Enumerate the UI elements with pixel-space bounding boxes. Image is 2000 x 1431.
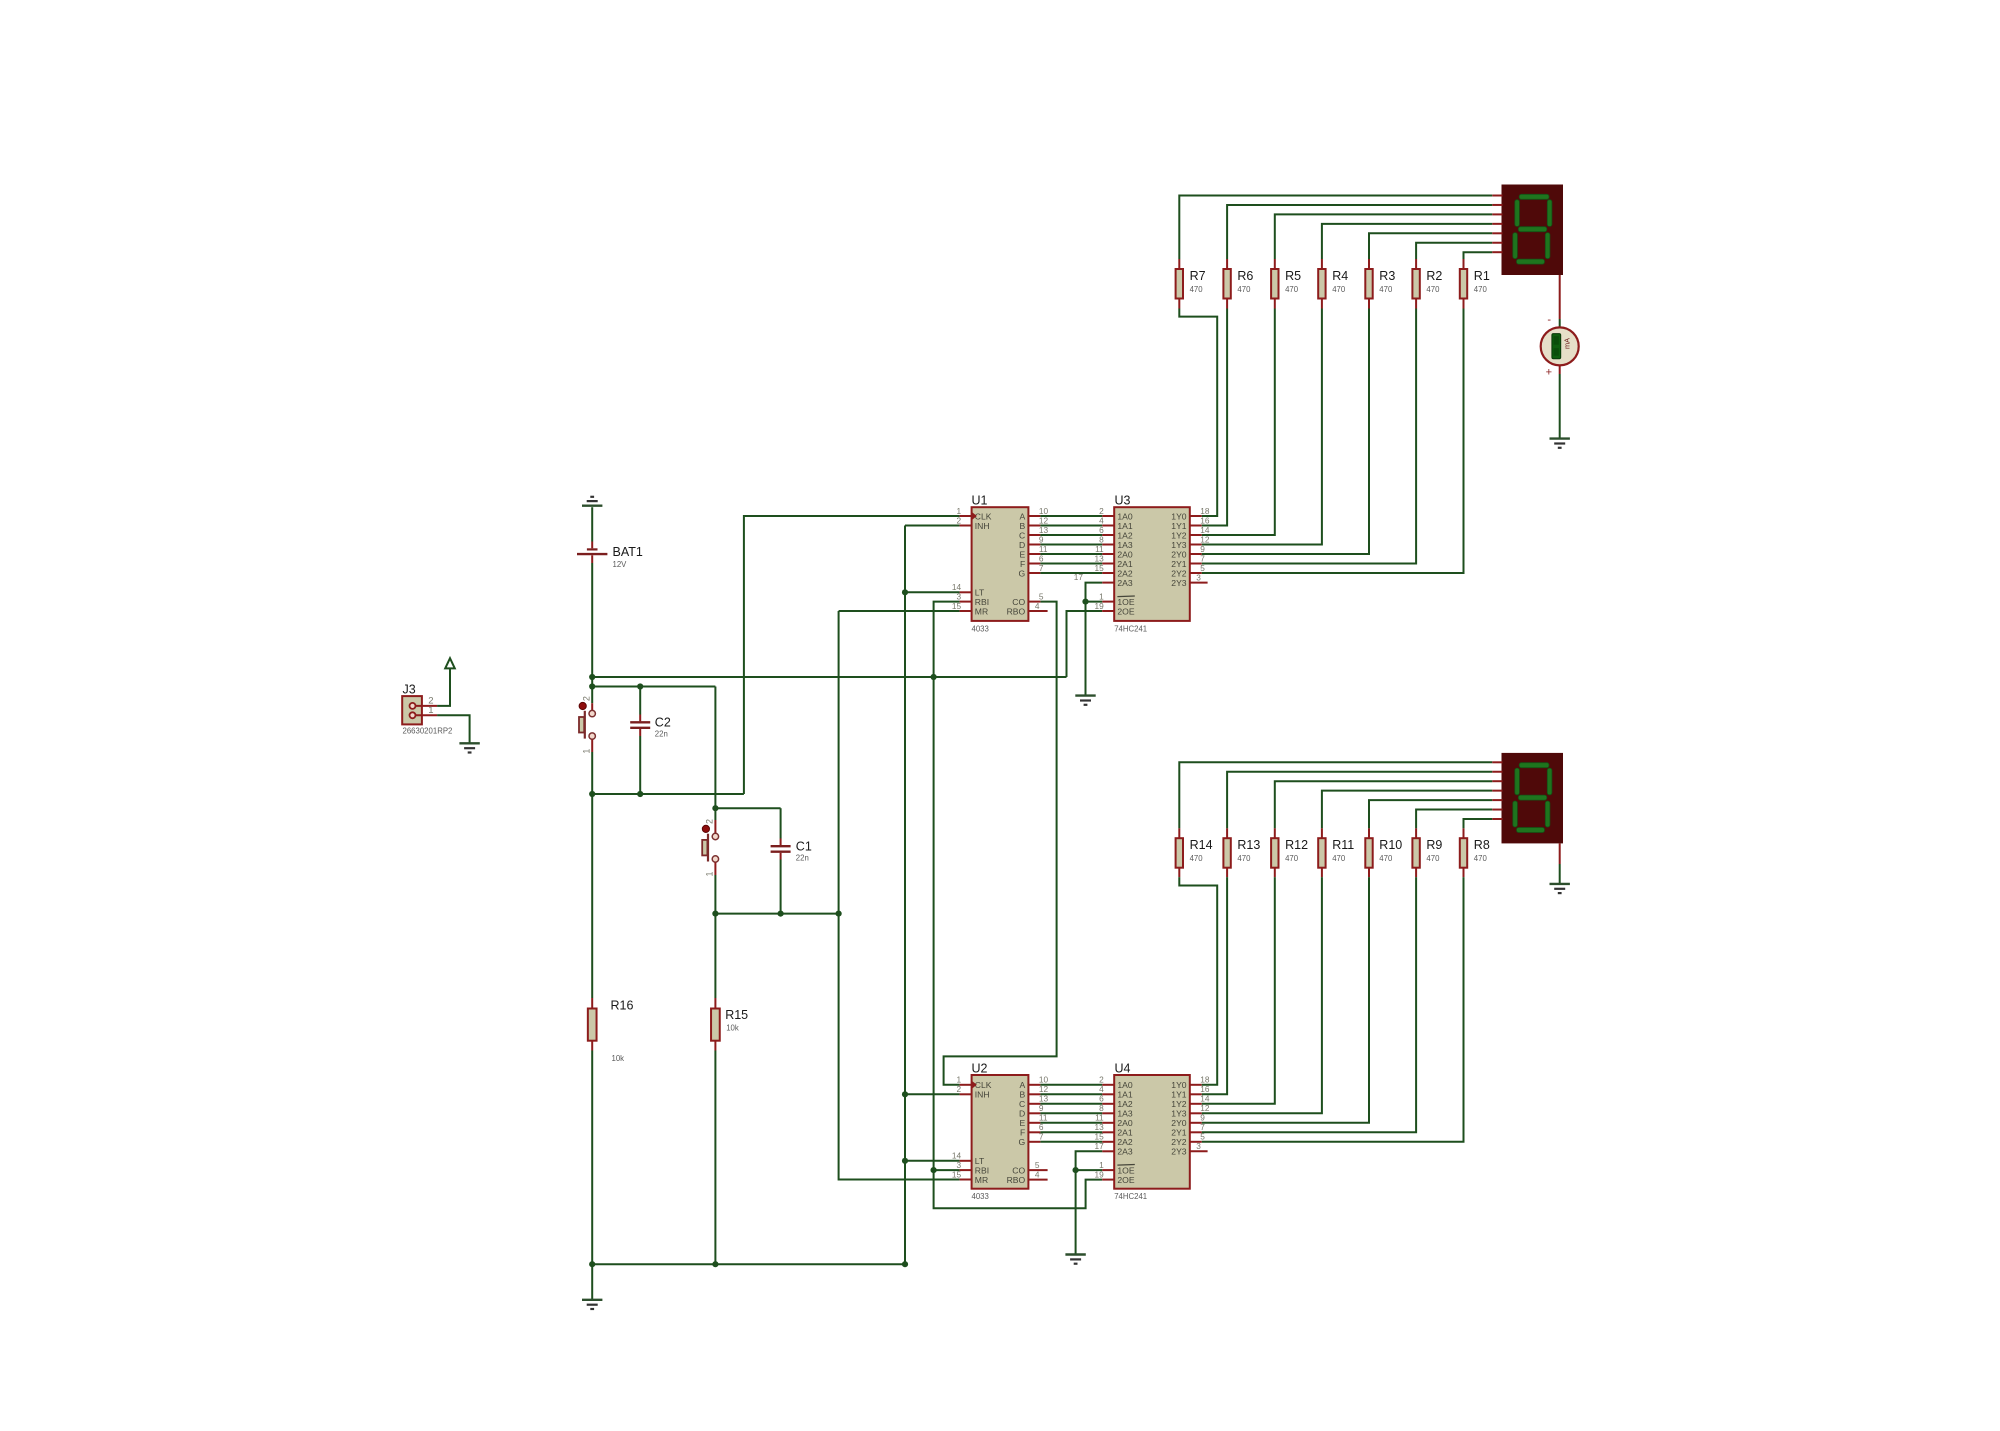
svg-text:1A0: 1A0 — [1117, 1080, 1133, 1090]
resistor R12 — [1271, 838, 1308, 868]
push button (upper) — [579, 696, 595, 754]
pin 7 2Y1 — [1171, 553, 1205, 569]
svg-text:E: E — [1019, 549, 1025, 559]
wire R12 to display row — [1275, 781, 1493, 828]
pin 4 1A1 — [1099, 515, 1133, 531]
resistor R2 — [1412, 269, 1442, 299]
svg-text:2Y1: 2Y1 — [1171, 1128, 1187, 1138]
wire R13 to display row — [1227, 772, 1492, 828]
wire R11 top stub — [1321, 828, 1323, 838]
svg-text:26630201RP2: 26630201RP2 — [403, 727, 453, 736]
svg-text:G: G — [1019, 1137, 1026, 1147]
svg-text:1: 1 — [956, 506, 961, 516]
svg-text:2A2: 2A2 — [1117, 568, 1133, 578]
resistor R7 — [1176, 269, 1206, 299]
pin 17 2A3 — [1074, 572, 1133, 588]
wire U1 E to U3 — [1040, 553, 1102, 555]
wire ammeter to ground — [1559, 374, 1561, 439]
svg-text:1Y1: 1Y1 — [1171, 1090, 1187, 1100]
junction node 913 left — [712, 911, 718, 917]
svg-text:22n: 22n — [655, 729, 668, 738]
pin 7 G — [1019, 563, 1044, 579]
svg-text:R9: R9 — [1426, 838, 1442, 852]
svg-text:2: 2 — [705, 819, 715, 824]
pin 6 F — [1020, 553, 1044, 569]
wire R11 to display row — [1322, 791, 1492, 829]
pin 17 2A3 — [1094, 1141, 1132, 1157]
resistor R16 — [588, 999, 634, 1063]
svg-text:2A1: 2A1 — [1117, 559, 1133, 569]
wire R15 top lead — [714, 914, 716, 998]
wire R1 to U3 output — [1202, 309, 1464, 574]
svg-text:CO: CO — [1012, 1165, 1025, 1175]
pin 3 2Y3 — [1171, 572, 1207, 588]
wire R11 to U4 output — [1202, 877, 1322, 1113]
pin 11 E — [1019, 544, 1047, 560]
svg-text:1A0: 1A0 — [1117, 511, 1133, 521]
svg-text:1Y2: 1Y2 — [1171, 1099, 1187, 1109]
connector J3 — [402, 683, 452, 736]
pin 18 1Y0 — [1171, 506, 1210, 522]
pin 12 1Y3 — [1171, 534, 1210, 550]
wire R7 bottom stub — [1178, 299, 1180, 309]
svg-text:R4: R4 — [1332, 269, 1348, 283]
svg-text:INH: INH — [975, 1090, 990, 1100]
svg-text:2Y3: 2Y3 — [1171, 578, 1187, 588]
wire R8 to U4 output — [1202, 877, 1464, 1142]
wire R6 to display row — [1227, 205, 1492, 259]
svg-text:470: 470 — [1285, 285, 1299, 294]
wire MR1 horizontal — [839, 610, 960, 612]
svg-text:J3: J3 — [403, 683, 416, 697]
svg-text:2OE: 2OE — [1117, 606, 1134, 616]
wire U4 1OE branch — [1076, 1169, 1103, 1171]
wire LT1 branch — [905, 591, 960, 593]
svg-text:470: 470 — [1426, 854, 1440, 863]
wire R14 top stub — [1178, 828, 1180, 838]
svg-text:2A2: 2A2 — [1117, 1137, 1133, 1147]
capacitor C1 — [771, 839, 812, 862]
wire ground rail horizontal — [592, 1263, 905, 1265]
pin 13 C — [1019, 1094, 1049, 1110]
svg-text:2Y0: 2Y0 — [1171, 1118, 1187, 1128]
svg-text:D: D — [1019, 540, 1025, 550]
pin 12 B — [1019, 515, 1048, 531]
wire R15 bottom to ground rail — [714, 1051, 716, 1265]
svg-text:4: 4 — [1035, 1169, 1040, 1179]
svg-text:-: - — [1547, 314, 1551, 326]
wire battery to node 677 — [591, 563, 593, 677]
wire R16 bottom to ground rail — [591, 1051, 593, 1265]
IC body U1 — [972, 494, 1029, 634]
pin 1 1OE — [1099, 591, 1135, 607]
wire R10 bottom stub — [1368, 867, 1370, 877]
pin 11 2A0 — [1095, 544, 1133, 560]
svg-text:2A0: 2A0 — [1117, 1118, 1133, 1128]
svg-text:R1: R1 — [1474, 269, 1490, 283]
resistor R13 — [1223, 838, 1260, 868]
pin 10 A — [1019, 506, 1048, 522]
wire U4 2A3 to ground drop — [1076, 1151, 1103, 1254]
wire INH/LT net vertical — [905, 525, 960, 527]
svg-text:mA: mA — [1563, 338, 1572, 349]
svg-text:U1: U1 — [972, 494, 988, 508]
svg-text:1: 1 — [428, 705, 433, 716]
svg-text:1: 1 — [956, 1075, 961, 1085]
wire R16 top lead — [591, 794, 593, 998]
wire node 808 horizontal — [715, 807, 780, 809]
pin 19 2OE — [1094, 1169, 1134, 1185]
IC body U3 — [1114, 494, 1190, 634]
ground below display2 — [1550, 884, 1570, 893]
resistor R5 — [1271, 269, 1301, 299]
wire R6 to U3 output — [1202, 309, 1227, 526]
wire U3 2A3 to ground drop — [1086, 583, 1103, 696]
junction node 686 left — [589, 683, 595, 689]
display1 left pin stubs — [1492, 196, 1502, 253]
wire CLK1 riser — [744, 516, 960, 794]
wire J3 pin2 to power arrow — [437, 669, 450, 706]
svg-text:INH: INH — [975, 521, 990, 531]
svg-text:CLK: CLK — [975, 511, 992, 521]
svg-text:R15: R15 — [725, 1008, 748, 1022]
svg-text:1Y2: 1Y2 — [1171, 530, 1187, 540]
junction RBI2 — [931, 1167, 937, 1173]
wire R13 bottom stub — [1226, 867, 1228, 877]
push button (lower) — [702, 819, 718, 877]
svg-text:1Y3: 1Y3 — [1171, 540, 1187, 550]
svg-text:1Y1: 1Y1 — [1171, 521, 1187, 531]
wire R10 top stub — [1368, 828, 1370, 838]
pin 15 2A2 — [1094, 563, 1132, 579]
pin 15 MR — [952, 1169, 988, 1185]
resistor R3 — [1365, 269, 1395, 299]
pin 11 E — [1019, 1113, 1047, 1129]
wire node 677 to node 686 — [591, 677, 593, 687]
svg-text:1Y3: 1Y3 — [1171, 1109, 1187, 1119]
svg-text:470: 470 — [1285, 854, 1299, 863]
wire R9 to display row — [1416, 810, 1492, 829]
wire button1 bottom stub — [591, 739, 593, 752]
svg-text:1Y0: 1Y0 — [1171, 511, 1187, 521]
wire R8 top stub — [1463, 828, 1465, 838]
resistor R10 — [1365, 838, 1402, 868]
wire R9 top stub — [1415, 828, 1417, 838]
wire U1 D to U3 — [1040, 544, 1102, 546]
svg-text:2Y2: 2Y2 — [1171, 1137, 1187, 1147]
svg-text:2OE: 2OE — [1117, 1175, 1134, 1185]
wire R6 bottom stub — [1226, 299, 1228, 309]
battery BAT1 — [577, 542, 643, 570]
wire R13 to U4 output — [1202, 877, 1227, 1094]
pin 19 2OE — [1094, 601, 1134, 617]
svg-text:R5: R5 — [1285, 269, 1301, 283]
svg-text:470: 470 — [1474, 285, 1488, 294]
wire R4 top stub — [1321, 259, 1323, 269]
svg-text:2: 2 — [581, 696, 591, 701]
pin 5 2Y2 — [1171, 1132, 1205, 1148]
wire R14 to display row — [1179, 762, 1492, 828]
wire R15 bottom stub — [714, 1041, 716, 1051]
pin 6 1A2 — [1099, 1094, 1133, 1110]
svg-text:2A0: 2A0 — [1117, 549, 1133, 559]
svg-text:BAT1: BAT1 — [613, 545, 643, 559]
pin 7 G — [1019, 1132, 1044, 1148]
wire R11 bottom stub — [1321, 867, 1323, 877]
wire U2 G to U4 — [1040, 1141, 1102, 1143]
svg-text:CLK: CLK — [975, 1080, 992, 1090]
display2 left pin stubs — [1492, 762, 1502, 819]
wire C1 top stub — [780, 839, 782, 846]
ammeter bottom stub — [1559, 365, 1561, 374]
svg-text:470: 470 — [1237, 854, 1251, 863]
wire MR net vertical — [839, 611, 960, 1180]
svg-text:2Y2: 2Y2 — [1171, 568, 1187, 578]
ground below U4 — [1065, 1255, 1085, 1264]
wire C1 top lead — [780, 808, 782, 838]
svg-text:G: G — [1019, 568, 1026, 578]
wire R8 to display row — [1464, 819, 1493, 828]
svg-text:4: 4 — [1035, 601, 1040, 611]
junction node 686 at C2 — [637, 683, 643, 689]
svg-text:R16: R16 — [611, 999, 634, 1013]
svg-text:470: 470 — [1190, 285, 1204, 294]
IC body U2 — [972, 1061, 1029, 1201]
svg-text:1A1: 1A1 — [1117, 1090, 1133, 1100]
wire R16 top stub — [591, 998, 593, 1009]
wire C2 bottom lead — [639, 736, 641, 794]
pin 6 1A2 — [1099, 525, 1133, 541]
svg-text:MR: MR — [975, 606, 988, 616]
wire C2 top stub — [639, 715, 641, 722]
pin 16 1Y1 — [1171, 515, 1210, 531]
wire U1 C to U3 — [1040, 534, 1102, 536]
svg-text:R11: R11 — [1332, 838, 1354, 852]
pin 12 1Y3 — [1171, 1103, 1210, 1119]
pin 7 2Y1 — [1171, 1122, 1205, 1138]
svg-text:470: 470 — [1379, 285, 1393, 294]
pin 5 2Y2 — [1171, 563, 1205, 579]
pin 1 CLK — [956, 1075, 991, 1091]
svg-text:R8: R8 — [1474, 838, 1490, 852]
display2 common pin stub — [1559, 843, 1561, 864]
junction node 677 at RBI vertical — [931, 674, 937, 680]
pin 18 1Y0 — [1171, 1075, 1210, 1091]
svg-text:1A2: 1A2 — [1117, 530, 1133, 540]
wire R4 to display row — [1322, 224, 1492, 259]
svg-text:470: 470 — [1379, 854, 1393, 863]
wire R1 bottom stub — [1463, 299, 1465, 309]
pin 4 1A1 — [1099, 1084, 1133, 1100]
svg-text:15: 15 — [952, 1169, 962, 1179]
wire C1 bottom stub — [780, 853, 782, 860]
wire U3 1OE branch — [1086, 601, 1103, 603]
svg-text:2A1: 2A1 — [1117, 1128, 1133, 1138]
svg-text:470: 470 — [1237, 285, 1251, 294]
svg-text:U2: U2 — [972, 1061, 988, 1075]
wire R16 bottom stub — [591, 1041, 593, 1051]
svg-text:MR: MR — [975, 1175, 988, 1185]
wire R4 to U3 output — [1202, 309, 1322, 545]
wire R7 to U3 1Y0 elbow — [1179, 309, 1217, 517]
wire U2 A to U4 — [1040, 1084, 1102, 1086]
pin 13 2A1 — [1094, 1122, 1132, 1138]
svg-text:2Y1: 2Y1 — [1171, 559, 1187, 569]
pin 13 2A1 — [1094, 553, 1132, 569]
wire R3 to U3 output — [1202, 309, 1369, 555]
wire button2 bottom stub — [714, 862, 716, 875]
svg-text:4033: 4033 — [972, 624, 989, 633]
wire button1 bottom to node 794 — [591, 752, 593, 794]
svg-text:2Y3: 2Y3 — [1171, 1147, 1187, 1157]
svg-text:15: 15 — [952, 601, 962, 611]
wire U2 B to U4 — [1040, 1093, 1102, 1095]
svg-text:R14: R14 — [1190, 838, 1213, 852]
svg-text:2: 2 — [956, 515, 961, 525]
wire R14 bottom stub — [1178, 867, 1180, 877]
svg-text:A: A — [1019, 511, 1025, 521]
junction node 794 left — [589, 791, 595, 797]
svg-text:5: 5 — [1035, 1160, 1040, 1170]
pin 8 1A3 — [1099, 1103, 1133, 1119]
svg-text:F: F — [1020, 559, 1025, 569]
svg-text:18: 18 — [1200, 1075, 1210, 1085]
wire R12 to U4 output — [1202, 877, 1275, 1104]
pin 2 INH — [956, 1084, 989, 1100]
junction INH2 — [902, 1091, 908, 1097]
svg-text:R13: R13 — [1237, 838, 1260, 852]
wire R2 to display row — [1416, 243, 1492, 259]
wire R12 top stub — [1274, 828, 1276, 838]
svg-text:1: 1 — [705, 871, 715, 876]
pin 6 F — [1020, 1122, 1044, 1138]
pin 9 2Y0 — [1171, 544, 1205, 560]
ammeter mA probe — [1541, 314, 1579, 378]
pin 4 RBO — [1007, 601, 1048, 617]
wire R14 to U4 1Y0 elbow — [1179, 877, 1217, 1085]
svg-text:1: 1 — [1099, 1160, 1104, 1170]
svg-text:1A3: 1A3 — [1117, 1109, 1133, 1119]
wire R2 bottom stub — [1415, 299, 1417, 309]
pin 14 1Y2 — [1171, 1094, 1210, 1110]
wire R6 top stub — [1226, 259, 1228, 269]
wire node 913 horizontal — [715, 913, 838, 915]
power arrow symbol — [445, 658, 455, 668]
pin 5 CO — [1012, 591, 1044, 607]
wire R9 to U4 output — [1202, 877, 1416, 1132]
pin 12 B — [1019, 1084, 1048, 1100]
wire button2 top lead — [714, 808, 716, 820]
svg-text:1A2: 1A2 — [1117, 1099, 1133, 1109]
wire to bottom-left ground — [591, 1264, 593, 1300]
pin 1 1OE — [1099, 1160, 1135, 1176]
svg-text:2A3: 2A3 — [1117, 1147, 1133, 1157]
wire U2 C to U4 — [1040, 1103, 1102, 1105]
svg-text:1: 1 — [581, 749, 591, 754]
wire display2 common to ground — [1559, 864, 1561, 884]
svg-text:C2: C2 — [655, 715, 671, 729]
wire U1 G to U3 — [1040, 572, 1102, 574]
svg-text:RBO: RBO — [1007, 606, 1026, 616]
pin 4 RBO — [1007, 1169, 1048, 1185]
7-segment display (upper) — [1502, 185, 1564, 276]
svg-text:C: C — [1019, 1099, 1025, 1109]
pin 8 1A3 — [1099, 534, 1133, 550]
svg-text:5: 5 — [1039, 591, 1044, 601]
wire node 686 corner down x715 — [714, 687, 716, 809]
wire R7 to display row — [1179, 196, 1492, 260]
pin 1 CLK — [956, 506, 991, 522]
wire R2 top stub — [1415, 259, 1417, 269]
wire J3 pin1 to ground — [437, 715, 470, 743]
svg-text:+: + — [1546, 366, 1552, 378]
junction node 677 at battery — [589, 674, 595, 680]
svg-text:D: D — [1019, 1109, 1025, 1119]
wire U2 E to U4 — [1040, 1122, 1102, 1124]
pin 3 RBI — [956, 591, 989, 607]
pin 10 A — [1019, 1075, 1048, 1091]
wire CO1 to CLK2 cascade — [944, 602, 1057, 1085]
resistor R9 — [1412, 838, 1442, 868]
junction 1OE U4 — [1073, 1167, 1079, 1173]
svg-text:2: 2 — [956, 1084, 961, 1094]
pin 2 1A0 — [1099, 506, 1133, 522]
ground below U3 — [1075, 696, 1095, 705]
resistor R4 — [1318, 269, 1348, 299]
resistor R8 — [1460, 838, 1490, 868]
pin 14 LT — [952, 582, 985, 598]
wire LT2 branch — [905, 1160, 960, 1162]
junction 1OE U3 — [1082, 599, 1088, 605]
wire U1 B to U3 — [1040, 525, 1102, 527]
wire R3 top stub — [1368, 259, 1370, 269]
wire R5 to display row — [1275, 214, 1493, 259]
wire R5 to U3 output — [1202, 309, 1275, 536]
wire R15 top stub — [714, 998, 716, 1009]
pin 15 MR — [952, 601, 988, 617]
svg-text:2A3: 2A3 — [1117, 578, 1133, 588]
wire R12 bottom stub — [1274, 867, 1276, 877]
junction ground rail left — [589, 1261, 595, 1267]
junction node 913 at C1 — [778, 911, 784, 917]
svg-text:470: 470 — [1332, 285, 1346, 294]
svg-text:22n: 22n — [796, 853, 809, 862]
svg-text:E: E — [1019, 1118, 1025, 1128]
pin 16 1Y1 — [1171, 1084, 1210, 1100]
resistor R11 — [1318, 838, 1354, 868]
svg-text:1Y0: 1Y0 — [1171, 1080, 1187, 1090]
wire R5 bottom stub — [1274, 299, 1276, 309]
capacitor C2 — [630, 715, 671, 738]
resistor R14 — [1176, 838, 1213, 868]
wire U1 F to U3 — [1040, 563, 1102, 565]
wire button1 top stub — [591, 703, 593, 710]
svg-text:10: 10 — [1039, 506, 1049, 516]
pin 3 RBI — [956, 1160, 989, 1176]
wire display1 common to ammeter — [1559, 319, 1561, 327]
pin 15 2A2 — [1094, 1132, 1132, 1148]
wire R2 to U3 output — [1202, 309, 1416, 564]
wire U1 A to U3 — [1040, 515, 1102, 517]
junction LT2 — [902, 1158, 908, 1164]
pin 11 2A0 — [1095, 1113, 1133, 1129]
resistor R1 — [1460, 269, 1490, 299]
J3 pin 1 stub — [416, 714, 438, 716]
svg-text:C1: C1 — [796, 839, 812, 853]
svg-text:4033: 4033 — [972, 1192, 989, 1201]
pin 14 LT — [952, 1151, 985, 1167]
wire R8 bottom stub — [1463, 867, 1465, 877]
